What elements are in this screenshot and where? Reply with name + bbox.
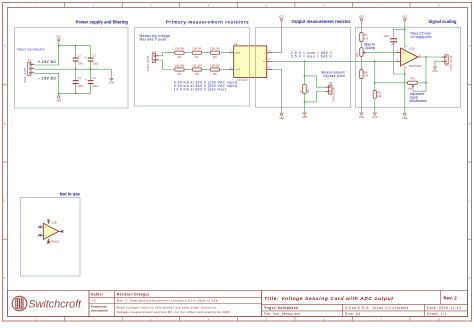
svg-text:Primary measurement resistors: Primary measurement resistors — [166, 19, 249, 24]
svg-text:P2: P2 — [153, 50, 157, 54]
svg-text:OpAmp: OpAmp — [365, 46, 376, 50]
junction C3 bottom — [90, 68, 92, 70]
svg-text:R5: R5 — [195, 72, 199, 76]
wire cap drop — [90, 46, 92, 58]
svg-text:High voltage input to volt sen: High voltage input to volt sensor via st… — [117, 306, 216, 310]
svg-text:C4: C4 — [92, 76, 96, 80]
wire P4 pin2 to GND — [435, 61, 442, 67]
wire to RV1 left — [375, 82, 408, 84]
svg-text:VCC: VCC — [56, 36, 61, 39]
svg-text:C: C — [469, 199, 471, 203]
wire to C5 — [394, 29, 405, 38]
ground — [109, 78, 114, 80]
svg-text:GND: GND — [302, 116, 308, 119]
op-amp U2B MCP6022 (not in use) — [40, 220, 63, 243]
svg-text:GND: GND — [359, 116, 365, 119]
svg-text:CONN_01X03: CONN_01X03 — [24, 67, 27, 83]
svg-text:CONN_01X02: CONN_01X02 — [147, 55, 150, 71]
svg-text:CONN_01X02: CONN_01X02 — [333, 87, 336, 103]
resistor R3 — [360, 33, 369, 42]
svg-text:Output measurement resistor: Output measurement resistor — [292, 19, 351, 24]
wire C4 drop — [90, 69, 92, 80]
wire node down — [374, 61, 376, 83]
wire VEE stem — [58, 93, 60, 95]
svg-text:+ 15V DC: + 15V DC — [38, 60, 56, 64]
svg-text:15k 5W: 15k 5W — [192, 47, 202, 51]
svg-text:10k: 10k — [377, 94, 382, 98]
svg-text:10k: 10k — [407, 86, 412, 90]
svg-text:amplification: amplification — [410, 99, 428, 103]
wire C2 to gnd rail — [75, 62, 77, 70]
svg-text:P1: P1 — [28, 59, 32, 63]
svg-text:100µ: 100µ — [92, 84, 98, 88]
wire R7 to gnd node — [304, 94, 306, 102]
svg-text:MCP6022: MCP6022 — [409, 64, 422, 68]
svg-text:15k 5W: 15k 5W — [175, 47, 185, 51]
svg-text:YS: YS — [91, 299, 96, 303]
svg-text:U1: U1 — [234, 42, 238, 46]
wire gnd to P3 pin2 — [305, 92, 326, 102]
wire -15V rail — [59, 92, 91, 94]
section box: Signal scaling — [356, 28, 461, 108]
svg-text:100n: 100n — [383, 34, 389, 38]
svg-text:Not in use: Not in use — [60, 192, 81, 197]
wire R5 to GND — [374, 98, 376, 113]
svg-text:VCC: VCC — [279, 15, 284, 18]
resistor R3 — [210, 47, 220, 60]
junction C5 top — [404, 28, 406, 30]
power symbol VCC — [56, 36, 61, 41]
svg-text:100µ: 100µ — [92, 61, 98, 65]
svg-text:+HT: +HT — [235, 51, 240, 55]
power symbol VEE — [402, 113, 407, 120]
capacitor C1 — [73, 76, 84, 88]
svg-text:B: B — [4, 121, 6, 125]
resistor R1 — [175, 47, 185, 60]
revision table — [89, 291, 262, 317]
wire +15V rail — [59, 45, 91, 47]
wire pin3 to -15V rail — [35, 73, 59, 93]
junction feedback / R5 — [374, 82, 376, 84]
resistor R4 — [360, 70, 369, 79]
junction R7 top tap — [304, 75, 306, 77]
wire R2-R3 — [202, 52, 209, 54]
svg-text:C: C — [4, 199, 6, 203]
svg-text:10k: 10k — [364, 37, 369, 41]
svg-text:100n: 100n — [77, 61, 83, 65]
junction C2 bottom — [75, 68, 77, 70]
resistor R2 — [192, 47, 202, 60]
wire opamp out to P4 — [421, 56, 442, 58]
svg-text:Title: Voltage Sensing Card wi: Title: Voltage Sensing Card with ADC out… — [264, 296, 393, 302]
svg-text:D: D — [4, 276, 6, 280]
wire node to R7 — [304, 61, 306, 84]
svg-text:KiCad E.D.A. kicad 4.0.4+stab: KiCad E.D.A. kicad 4.0.4+stable — [345, 306, 409, 310]
svg-text:D: D — [469, 276, 471, 280]
svg-text:R5: R5 — [377, 91, 381, 95]
capacitor C5 — [390, 38, 397, 42]
power symbol VCC — [279, 15, 284, 20]
svg-text:Max 843 V peak: Max 843 V peak — [140, 38, 167, 42]
svg-text:R4: R4 — [364, 70, 368, 74]
wire RV2 to R4 — [360, 56, 362, 69]
junction output feedback — [425, 56, 427, 58]
transducer U1 pins — [229, 53, 273, 70]
svg-text:description: description — [91, 309, 108, 313]
svg-text:Author: Author — [91, 292, 104, 296]
wire VCC stem — [58, 41, 60, 46]
svg-text:Sheet: 1/1: Sheet: 1/1 — [427, 312, 447, 316]
frame column ticks and numbers — [65, 2, 410, 321]
wire opamp V- to VEE — [404, 66, 406, 113]
transducer U1 LV 25-P body — [234, 46, 267, 78]
svg-text:Size: A4: Size: A4 — [345, 312, 361, 316]
wire VCC to opamp V+ — [404, 21, 406, 48]
wire RV1 to feedback — [419, 82, 427, 84]
svg-text:RV1: RV1 — [410, 77, 416, 81]
svg-text:Power supply and filtering: Power supply and filtering — [76, 20, 129, 25]
wire U1 +Uc to VCC — [272, 21, 281, 53]
svg-text:GND: GND — [372, 116, 378, 119]
svg-text:R3: R3 — [364, 33, 368, 37]
svg-text:File: Volt_sensor.sch: File: Volt_sensor.sch — [264, 312, 301, 316]
wire C1 to -15V rail — [75, 84, 77, 93]
op-amp U2A MCP6022 — [396, 46, 423, 70]
svg-text:P3: P3 — [329, 81, 333, 85]
wire to GND symbol — [110, 69, 112, 78]
svg-text:P4: P4 — [445, 63, 449, 67]
svg-text:R4: R4 — [178, 72, 182, 76]
power symbol VCC — [359, 15, 364, 20]
connector P4 CONN_01X02 — [442, 55, 449, 64]
svg-text:15k 5W: 15k 5W — [192, 63, 202, 67]
junction R7 bottom — [304, 101, 306, 103]
svg-text:C5: C5 — [391, 42, 395, 46]
junction RV1 right — [425, 82, 427, 84]
section box: Not in use — [21, 198, 81, 277]
Switchcroft logo — [12, 296, 27, 311]
svg-text:−HT: −HT — [235, 68, 240, 72]
svg-text:− 15V DC: − 15V DC — [38, 77, 56, 81]
ground — [359, 113, 364, 115]
wire C1 drop — [75, 69, 77, 80]
connector P3 CONN_01X02 — [325, 85, 332, 94]
potentiometer RV1 — [407, 77, 417, 91]
wire VCC to R3 — [360, 21, 362, 33]
wire to GND — [304, 102, 306, 113]
svg-text:GND: GND — [109, 82, 115, 85]
junction M to feedback — [374, 60, 376, 62]
svg-text:15k 5W: 15k 5W — [210, 47, 220, 51]
svg-text:Voltage measurement accross RT: Voltage measurement accross RT, pot for … — [117, 310, 231, 314]
svg-text:R3: R3 — [213, 55, 217, 59]
wire C3 to gnd rail — [90, 62, 92, 70]
junction VCC rail — [58, 45, 60, 47]
wire C4 to -15V rail — [90, 84, 92, 93]
capacitor C4 — [85, 76, 99, 88]
frame row ticks and letters — [3, 85, 472, 239]
svg-text:15k 5W: 15k 5W — [210, 63, 220, 67]
resistor R4 — [175, 63, 185, 76]
svg-text:U2B: U2B — [51, 221, 57, 225]
svg-text:3.5 V = max = 843 V: 3.5 V = max = 843 V — [291, 55, 333, 59]
svg-text:C1: C1 — [77, 76, 81, 80]
wire GND rail — [35, 68, 112, 70]
svg-text:R1: R1 — [178, 55, 182, 59]
power symbol VEE — [279, 113, 284, 120]
svg-text:+: + — [85, 55, 87, 59]
wire R4 to GND — [360, 79, 362, 113]
no-connect crosses — [39, 219, 64, 243]
section box: Output measurement resistor — [256, 28, 351, 108]
svg-text:VEE: VEE — [279, 117, 284, 120]
wire R4-R5 — [185, 69, 192, 71]
svg-text:15k 5W: 15k 5W — [175, 63, 185, 67]
power symbol VEE — [56, 96, 61, 103]
wire R6 to U1 — [220, 69, 228, 71]
svg-text:GND: GND — [432, 70, 438, 73]
svg-text:Input connector: Input connector — [17, 47, 46, 51]
svg-text:150: 150 — [306, 89, 310, 94]
svg-text:Date: 2016-12-13: Date: 2016-12-13 — [427, 306, 461, 310]
wire U1 -Uc to VEE — [272, 70, 282, 114]
svg-text:U2A: U2A — [409, 46, 415, 50]
svg-text:LV 25-P: LV 25-P — [237, 78, 247, 82]
connector P2 CONN_01X02 — [152, 54, 159, 63]
junction C1 bottom — [75, 92, 77, 94]
svg-text:Revision Changes: Revision Changes — [117, 292, 149, 296]
svg-text:bypass point: bypass point — [324, 74, 346, 78]
svg-text:A: A — [4, 44, 6, 48]
wire C5 to V- rail — [394, 42, 405, 74]
wire P2 pin1 to R1 — [159, 53, 174, 56]
svg-text:Yngve Solbakken: Yngve Solbakken — [264, 306, 299, 310]
svg-text:A: A — [469, 44, 471, 48]
svg-text:Signal scaling: Signal scaling — [428, 19, 457, 24]
wire feedback down — [425, 57, 427, 83]
svg-text:R7: R7 — [299, 89, 303, 93]
svg-text:10k: 10k — [364, 74, 369, 78]
svg-text:Rev: 2: Rev: 2 — [444, 296, 458, 301]
resistor R5 — [373, 91, 382, 99]
resistor R7 — [299, 84, 310, 93]
resistor R6 — [210, 63, 220, 76]
resistor R5 — [192, 63, 202, 76]
section box: Power supply and filtering — [15, 28, 129, 109]
svg-text:VCC: VCC — [359, 15, 364, 18]
wire VCC to pin1 — [35, 46, 59, 65]
wire to R5 — [374, 83, 376, 91]
wire R3 to RV2 — [360, 42, 362, 48]
svg-text:U2 supply pins: U2 supply pins — [411, 35, 432, 39]
wire P2 pin2 to R4 — [159, 60, 174, 70]
svg-text:+: + — [85, 78, 87, 82]
svg-text:RV2: RV2 — [356, 52, 359, 57]
junction node M / R7 — [304, 60, 306, 62]
wire tap to P3 pin1 — [305, 76, 326, 87]
svg-text:100n: 100n — [77, 84, 83, 88]
svg-text:C3: C3 — [92, 53, 96, 57]
svg-text:M: M — [263, 59, 265, 63]
svg-text:Switchcroft: Switchcroft — [28, 299, 82, 311]
svg-text:C2: C2 — [77, 53, 81, 57]
ground — [373, 113, 378, 115]
svg-text:B: B — [469, 121, 471, 125]
svg-text:VEE: VEE — [402, 117, 407, 120]
wire RV2 wiper to opamp + — [366, 52, 395, 54]
svg-text:VEE: VEE — [56, 100, 61, 103]
potentiometer RV2 — [356, 48, 366, 58]
svg-text:R2: R2 — [195, 55, 199, 59]
power symbol VCC — [402, 15, 407, 20]
svg-text:CONN_01X02: CONN_01X02 — [450, 55, 453, 71]
junction V- rail — [404, 73, 406, 75]
svg-text:R6: R6 — [213, 72, 217, 76]
wire RV1 wiper link — [413, 83, 426, 91]
section box: Primary measurement resistors — [135, 28, 250, 107]
capacitor C2 — [73, 53, 84, 65]
junction C2 top — [75, 45, 77, 47]
wire R3 to U1 — [220, 52, 228, 54]
svg-text:Rev 2: Changed measurement res: Rev 2: Changed measurement resistors fro… — [117, 299, 218, 303]
junction VEE rail — [58, 92, 60, 94]
title block — [262, 291, 468, 317]
wire R5-R6 — [202, 69, 209, 71]
svg-text:VCC: VCC — [402, 15, 407, 18]
svg-text:14.0 mA at 843 V (abs max): 14.0 mA at 843 V (abs max) — [174, 87, 227, 91]
wire M signal — [272, 60, 396, 62]
logo box — [8, 291, 90, 317]
wire cap drop — [75, 46, 77, 58]
capacitor C3 — [85, 53, 99, 65]
ground — [433, 67, 438, 69]
connector P1 CONN_01X03 — [28, 62, 35, 75]
ground — [302, 113, 307, 115]
wire R1-R2 — [185, 52, 192, 54]
